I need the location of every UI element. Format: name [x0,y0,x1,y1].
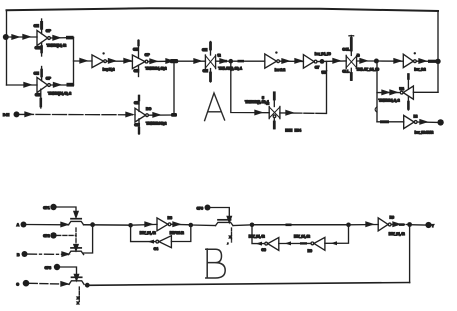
port CP3 [54,264,60,270]
wire: U8 junction to U10 [317,60,346,63]
wire: U18 out to junction [391,224,410,226]
wire: junction to port Y [410,224,426,226]
letter A section label [205,93,225,121]
wire: riser to U13 input [377,121,404,123]
svg-text:INV_21, t2: INV_21, t2 [389,232,405,236]
svg-text:ON: ON [34,71,40,75]
node: junction after U6 [229,59,234,64]
wire: U3 output to U4 [107,60,133,62]
svg-text:OLL: OLL [342,69,350,73]
svg-text:TRILAT_14_10: TRILAT_14_10 [356,68,379,72]
svg-text:B6: B6 [390,216,394,220]
wire: CP1 to Q1 gate [57,207,76,213]
port Y [425,222,431,228]
svg-text:x: x [77,301,79,305]
wire: U15 out back to input junction [131,225,156,241]
transistor Q4 [216,220,234,226]
svg-text:Inv_2 2: Inv_2 2 [414,68,425,72]
port CP0 [205,205,211,211]
svg-text:BO: BO [146,107,151,111]
transmission latch U10 (TRILAT_14_10) [342,36,360,81]
wire: bottom feedback rail [87,283,409,286]
stub below Q3 [77,287,79,305]
wire: bus to buffer U3 [74,60,93,62]
wire: left vertical rail [6,10,8,85]
wire: main rail into U18 [349,224,379,226]
wire: CP3 to Q3 gate [60,267,76,276]
wire: into U2 input [7,84,38,86]
svg-text:x: x [229,235,231,239]
svg-text:ON: ON [35,93,41,97]
wire: junction down to U5 output line [173,61,175,115]
transmission gate U9 (TRNOR) [262,93,280,129]
wire: U16 out back up to junction [252,225,265,244]
inverter U18 (B6) [378,216,394,231]
svg-text:INV_31, t2: INV_31, t2 [140,231,156,235]
inverter U8 [303,55,317,69]
wire: output down to bottom rail [409,225,411,283]
wire: U5 output to junction riser [148,114,174,116]
node: loop2 return junction [250,223,255,228]
wire: CP0 to Q4 gate [211,208,230,219]
port: D-M input [14,111,20,117]
svg-text:Inv, t1,2: Inv, t1,2 [103,67,115,71]
node: right rail junction [435,59,440,64]
svg-text:Inv 2 2: Inv 2 2 [275,68,285,72]
node: Q3 drain junction [85,283,90,288]
tri-state inverter U1 (TRINV top-left) [34,19,52,56]
svg-text:ON: ON [133,47,139,51]
node: Q1 drain junction [90,222,95,227]
wire: drain riser down to Q2 [84,225,93,253]
tri-state inverter U5 (on D-M line) [134,95,151,134]
svg-text:U4: U4 [399,87,403,91]
node: bus bottom corner blob [67,83,75,87]
node: junction above U5 [170,59,178,63]
buffer U3 (INV t1,2) [92,52,107,67]
svg-text:ON: ON [134,69,140,73]
wire: right vertical rail [437,11,439,92]
wire: U13 output to port [417,121,437,123]
wire: main rail to takeoff [252,224,349,226]
svg-text:x: x [77,296,79,300]
wire: U12 output to left riser [377,92,400,94]
svg-text:INV 31 t2: INV 31 t2 [170,231,184,235]
wire: main rail Q1 to latch [84,224,131,226]
transistor Q3 [69,277,84,284]
svg-text:N0H N04: N0H N04 [285,129,301,133]
svg-text:OP: OP [46,76,52,80]
wire: U2 output to bus [50,84,73,86]
wire: TG output to riser [280,112,327,115]
tri-state inverter U12 (feedback, points left) [399,74,413,110]
svg-text:TRINV14, 2, 2: TRINV14, 2, 2 [379,99,400,103]
inverter U16 (points left) [261,238,278,252]
wire: U11 output to right rail [416,60,438,62]
wire hop on riser [375,107,377,112]
wire: U1 output to bus [50,37,73,39]
node: left rail junction [3,34,9,40]
svg-text:Inv_34_10: Inv_34_10 [315,52,331,56]
wire: U4 output to junction [148,60,174,62]
node: output junction [407,222,412,227]
svg-text:TRINV14, t2,2: TRINV14, t2,2 [145,66,166,70]
port B [22,251,28,257]
port CP1 [50,204,56,210]
stub below Q4 [227,228,231,247]
inverter U17 (points left) [308,237,325,253]
svg-text:ON: ON [134,101,140,105]
wire: junction to U6 [174,60,205,62]
wire: riser from main line down to U13 [376,61,378,122]
buffer U14 (D3) [157,216,172,231]
svg-text:ON: ON [34,24,40,28]
port C [23,280,30,287]
svg-text:C9: C9 [261,248,265,252]
port: section A output [437,119,443,125]
wire: U17 out to U16 [279,242,311,244]
wire: D-M to U5 [20,113,136,115]
node: latch output junction [189,223,194,228]
wire: Q4 to loop junction [233,224,252,227]
wire: into buffer U14 [131,223,157,226]
wire: U14 out to junction [171,223,191,226]
svg-text:B9: B9 [308,249,312,253]
wire: CP2 to Q2 gate [57,234,76,236]
svg-text:TRINV(14, t2, 2: TRINV(14, t2, 2 [48,92,71,96]
buffer U13 (output, Inv_22) [404,115,418,129]
transistor Q1 [69,219,84,225]
node: junction after U8 [320,59,325,64]
node: loop2 takeoff junction [346,223,351,228]
wire: U6 output [216,60,265,62]
tri-state inverter U2 (TRINV lower-left) [34,67,52,109]
inverter U15 (C4, points left) [154,236,172,251]
wire: U10 output to junction [357,60,377,62]
port CP2 [50,232,56,238]
svg-text:D-M: D-M [3,113,9,117]
svg-text:ON: ON [202,48,208,52]
wire: junction drop to TG row [231,61,269,112]
wire: U7 to U8 [280,60,304,62]
wire: B to Q2 [28,253,69,255]
node: junction before U11 [374,59,379,64]
svg-text:OCL: OCL [342,48,350,52]
svg-text:ON: ON [134,123,140,127]
node: latch input junction [128,223,133,228]
tri-state inverter U4 (mid chain) [132,40,150,77]
svg-text:INV_31, t2: INV_31, t2 [249,235,265,239]
svg-text:CP0: CP0 [197,206,204,210]
svg-text:INV_31, t2: INV_31, t2 [294,235,310,239]
wire: C to Q3 [29,282,69,285]
svg-text:Inv_22 1212: Inv_22 1212 [415,130,434,134]
inverter U7 (Inv 2 2) [265,51,280,68]
wire: junction riser to TG output [326,61,328,113]
transistor Q2 [69,248,84,255]
wire: junction to U11 [376,60,403,62]
transmission latch U6 (TRILAT) [202,42,221,83]
wire: A to Q1 [27,224,69,226]
svg-text:TRNOR(2, 10, 1: TRNOR(2, 10, 1 [245,100,269,104]
svg-text:CP3: CP3 [45,266,52,270]
svg-text:OP: OP [46,29,52,33]
wire: top feedback rail of section A [7,8,439,11]
wire: takeoff drop and lower run [325,225,349,244]
svg-text:ON: ON [35,46,41,50]
svg-text:OP: OP [145,53,151,57]
wire: rail to U12 input [413,91,438,93]
svg-text:C7: C7 [315,65,319,69]
svg-text:D3: D3 [168,216,172,220]
svg-text:TRINV14 t2,2: TRINV14 t2,2 [146,122,166,126]
svg-text:TRINV(14, t2: TRINV(14, t2 [47,43,67,47]
svg-text:ON: ON [203,69,209,73]
svg-text:CP1: CP1 [43,206,50,210]
wire: output bus vertical [73,37,75,85]
wire: latch to Q4 [192,224,216,227]
port A [21,222,27,228]
letter B section label [206,249,225,278]
buffer U11 (Inv_2 2) [403,52,416,68]
svg-text:t2: t2 [218,53,221,57]
svg-text:C4: C4 [154,247,158,251]
wire: latch feedback drop [171,225,190,242]
svg-text:CP2: CP2 [43,234,50,238]
wire: into U1 input [7,36,38,38]
